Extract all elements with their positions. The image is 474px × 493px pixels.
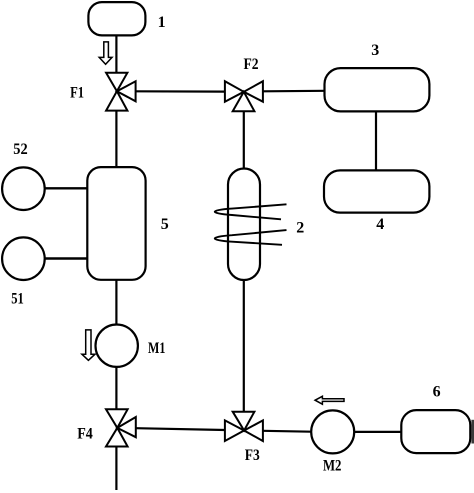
- svg-text:F1: F1: [70, 85, 84, 102]
- wire vessel3 to vessel4: [375, 111, 377, 170]
- svg-text:M2: M2: [323, 458, 342, 475]
- flow arrow left of M1: [82, 330, 95, 360]
- wire M1 to F4: [115, 367, 117, 409]
- gauge circle 51: [2, 237, 45, 280]
- capsule 2: [228, 169, 260, 281]
- coil loop 2: [215, 230, 287, 245]
- wire vessel5 to M1: [115, 280, 117, 325]
- flow arrow above M2: [315, 396, 344, 404]
- vessel 6: [401, 410, 470, 453]
- svg-text:2: 2: [296, 220, 304, 237]
- valve F2: [225, 81, 263, 111]
- wire F2 to vessel 3: [263, 90, 325, 93]
- svg-text:F3: F3: [245, 447, 260, 464]
- svg-text:M1: M1: [148, 340, 165, 357]
- svg-text:52: 52: [13, 141, 27, 158]
- wire M2 to vessel 6: [354, 431, 401, 433]
- svg-text:F4: F4: [77, 426, 93, 443]
- wire 52 to vessel 5: [45, 187, 88, 189]
- svg-text:5: 5: [161, 216, 169, 233]
- wire capsule2 to F3: [243, 280, 245, 412]
- wire F4 to F3: [136, 428, 225, 430]
- svg-text:1: 1: [158, 14, 166, 31]
- coil loop 1: [215, 204, 287, 219]
- flow arrow below vessel 1: [99, 42, 112, 64]
- pump M1: [96, 325, 138, 367]
- gauge circle 52: [2, 167, 45, 210]
- vessel 4: [324, 170, 429, 212]
- vessel 1: [88, 2, 145, 35]
- wire F1 to vessel 5: [115, 111, 117, 168]
- clipped wire stub right of vessel 6: [471, 420, 474, 444]
- wire F3 to M2: [263, 430, 311, 433]
- pump M2: [311, 410, 354, 453]
- wire F4 down: [115, 447, 117, 491]
- valve F1: [106, 73, 136, 111]
- vessel 5: [87, 167, 145, 280]
- wire F2 to capsule 2: [243, 111, 245, 168]
- wire vessel1 to F1: [115, 35, 117, 72]
- vessel 3: [325, 68, 430, 111]
- svg-text:F2: F2: [243, 56, 258, 73]
- wire F1 to F2: [136, 90, 225, 92]
- wire 51 to vessel 5: [45, 257, 88, 259]
- svg-text:4: 4: [376, 216, 384, 233]
- valve F4: [106, 409, 136, 446]
- svg-text:6: 6: [433, 383, 441, 400]
- svg-text:3: 3: [371, 42, 379, 59]
- svg-text:51: 51: [11, 291, 24, 308]
- valve F3: [225, 412, 263, 441]
